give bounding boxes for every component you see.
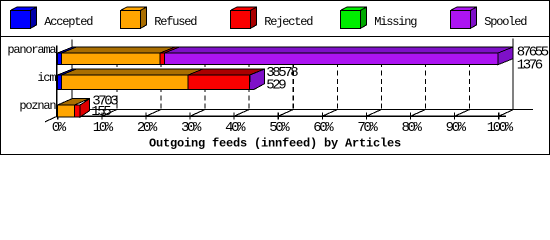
svg-text:155: 155	[91, 104, 111, 120]
svg-text:Missing: Missing	[374, 15, 417, 29]
svg-text:80%: 80%	[401, 120, 422, 136]
svg-text:Refused: Refused	[154, 15, 197, 29]
svg-text:Spooled: Spooled	[484, 15, 527, 29]
svg-text:Accepted: Accepted	[44, 15, 93, 29]
svg-text:Outgoing feeds (innfeed) by Ar: Outgoing feeds (innfeed) by Articles	[149, 137, 401, 151]
svg-text:60%: 60%	[313, 120, 334, 136]
svg-text:90%: 90%	[446, 120, 467, 136]
svg-text:529: 529	[266, 78, 286, 94]
svg-text:70%: 70%	[357, 120, 378, 136]
svg-text:40%: 40%	[225, 120, 246, 136]
svg-text:icm: icm	[37, 71, 56, 85]
svg-text:10%: 10%	[93, 120, 114, 136]
svg-text:50%: 50%	[269, 120, 290, 136]
svg-text:100%: 100%	[487, 120, 514, 136]
svg-text:1376: 1376	[517, 57, 543, 73]
svg-text:30%: 30%	[181, 120, 202, 136]
svg-text:poznan: poznan	[19, 99, 56, 113]
svg-text:panorama: panorama	[7, 43, 56, 57]
svg-text:20%: 20%	[137, 120, 158, 136]
svg-text:Rejected: Rejected	[264, 15, 313, 29]
